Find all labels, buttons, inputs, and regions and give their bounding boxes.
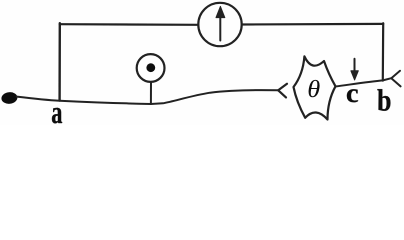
stimulating electrode stalk wire <box>150 82 152 104</box>
nerve ending terminal blob (left) <box>1 91 18 104</box>
synaptic terminal arrowhead at soma <box>278 84 287 98</box>
node label c <box>347 89 358 102</box>
theta label inside soma <box>309 80 320 97</box>
stimulating electrode S1 circle <box>137 54 165 82</box>
axon terminal fork (right end) <box>391 71 400 87</box>
stimulus arrow (down) above node c <box>354 59 356 72</box>
axon left segment: blob to node a to stimulator to rise <box>17 90 278 104</box>
node label b <box>377 89 390 111</box>
wire right vertical down to node b <box>382 23 385 80</box>
wire top-right horizontal from galvanometer to right corner <box>242 23 383 26</box>
neuron soma (star shaped cell body) <box>294 56 336 119</box>
wire top-left horizontal from left electrode corner to galvanometer <box>60 23 199 26</box>
node label a <box>52 108 62 123</box>
axon right segment: soma to node b to terminal fork <box>335 78 391 86</box>
wire left vertical down to node a <box>58 23 61 100</box>
galvanometer needle arrow (up) <box>219 17 221 41</box>
galvanometer U1 circle <box>198 3 241 46</box>
stimulating electrode tip (filled dot) <box>146 63 155 72</box>
